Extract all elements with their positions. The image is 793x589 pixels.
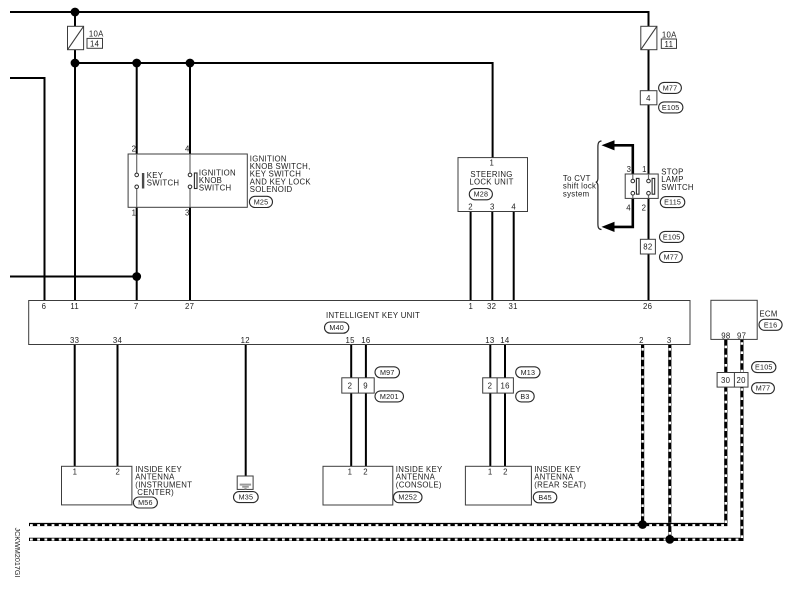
fuse 10A 14 bbox=[68, 26, 105, 49]
junction node bus2 ignition knob bbox=[186, 59, 195, 68]
svg-text:M97: M97 bbox=[380, 368, 395, 377]
wire SLU pin2 to IKU pin 1 bbox=[470, 212, 472, 301]
M25 pin labels bbox=[132, 145, 190, 218]
wire SLU pin4 to IKU pin 31 bbox=[513, 212, 515, 301]
wire bus2 bbox=[75, 62, 493, 64]
svg-text:2: 2 bbox=[115, 467, 120, 476]
svg-text:12: 12 bbox=[241, 336, 250, 345]
shielded wire IKU pin2 to bottom bus1 bbox=[641, 345, 644, 525]
svg-text:E105: E105 bbox=[755, 363, 773, 372]
stop lamp switch right contact bbox=[647, 174, 655, 198]
shielded bottom bus1 with ECM pin98 branch bbox=[29, 339, 726, 525]
wire top bus bbox=[10, 11, 649, 13]
junction node bus2 key switch bbox=[132, 59, 141, 68]
connector label M77 near 30|20 bbox=[752, 383, 775, 394]
stop lamp switch left contact bbox=[631, 174, 639, 198]
antenna M35 bbox=[237, 476, 253, 489]
svg-text:2: 2 bbox=[363, 467, 368, 476]
wire steering lock pin1 feed bbox=[492, 62, 494, 158]
svg-text:11: 11 bbox=[665, 40, 674, 49]
svg-text:34: 34 bbox=[113, 336, 123, 345]
svg-text:SWITCH: SWITCH bbox=[147, 179, 180, 188]
svg-text:M201: M201 bbox=[380, 392, 399, 401]
svg-text:33: 33 bbox=[70, 336, 79, 345]
svg-text:1: 1 bbox=[642, 165, 647, 174]
junction node bottom bus1 bbox=[638, 520, 647, 529]
svg-text:(REAR SEAT): (REAR SEAT) bbox=[534, 480, 586, 489]
IKU top pin labels bbox=[42, 302, 653, 311]
svg-text:M56: M56 bbox=[138, 498, 153, 507]
svg-text:1: 1 bbox=[73, 467, 78, 476]
svg-text:16: 16 bbox=[501, 382, 510, 391]
junction node on top bus at fuse 14 bbox=[71, 8, 80, 17]
wire to IKU pin 11 bbox=[74, 63, 76, 301]
svg-text:2: 2 bbox=[348, 382, 353, 391]
fuse 10A 11 bbox=[641, 26, 677, 49]
svg-text:10A: 10A bbox=[662, 30, 677, 39]
junction node left branch pin7 wire bbox=[132, 272, 141, 281]
svg-text:7: 7 bbox=[134, 302, 139, 311]
shielded bottom bus2 with ECM pin97 branch bbox=[29, 339, 742, 539]
svg-text:M40: M40 bbox=[329, 323, 344, 332]
svg-text:3: 3 bbox=[490, 202, 495, 211]
connector label M77 bbox=[659, 82, 682, 93]
connector label E105 near 30|20 bbox=[752, 362, 776, 373]
connector 30|20 bbox=[717, 373, 748, 388]
svg-text:20: 20 bbox=[736, 376, 746, 385]
svg-text:JCKWM2017GI: JCKWM2017GI bbox=[13, 528, 22, 578]
connector label M13 bbox=[516, 367, 540, 378]
connector label B45 bbox=[533, 492, 557, 503]
svg-text:4: 4 bbox=[626, 203, 631, 212]
svg-text:82: 82 bbox=[643, 243, 652, 252]
svg-text:4: 4 bbox=[646, 94, 651, 103]
wire to IKU pin 6 bbox=[10, 78, 45, 301]
svg-text:M77: M77 bbox=[664, 253, 679, 262]
svg-text:M28: M28 bbox=[474, 190, 489, 199]
CVT brace bbox=[596, 141, 602, 230]
wire IKU 14 to antenna B45 pin2 bbox=[504, 345, 506, 467]
svg-text:E16: E16 bbox=[764, 320, 777, 329]
svg-text:14: 14 bbox=[500, 336, 510, 345]
svg-text:B3: B3 bbox=[520, 392, 529, 401]
wire to ignition knob switch pin 4 bbox=[189, 63, 191, 154]
svg-text:B45: B45 bbox=[538, 493, 551, 502]
svg-text:2: 2 bbox=[468, 202, 473, 211]
connector label M201 bbox=[375, 391, 404, 402]
svg-text:32: 32 bbox=[487, 302, 496, 311]
connector label M35 bbox=[234, 492, 259, 503]
IKU bottom pin labels bbox=[70, 336, 671, 345]
wire fuse11 drop bbox=[648, 11, 650, 26]
svg-text:1: 1 bbox=[348, 467, 353, 476]
CVT note text bbox=[563, 174, 596, 198]
connector 2|9 bbox=[342, 378, 374, 393]
ECM box E16 bbox=[711, 300, 778, 340]
CVT branch arrow top bbox=[602, 140, 633, 174]
svg-text:27: 27 bbox=[185, 302, 194, 311]
svg-text:2: 2 bbox=[132, 145, 137, 154]
wire stop lamp pin2 to IKU pin 26 bbox=[648, 198, 650, 300]
ignition knob switch contacts bbox=[188, 154, 236, 207]
svg-text:98: 98 bbox=[721, 331, 730, 340]
svg-text:LOCK UNIT: LOCK UNIT bbox=[469, 178, 513, 187]
svg-text:E115: E115 bbox=[664, 198, 681, 207]
svg-text:6: 6 bbox=[42, 302, 47, 311]
svg-text:M77: M77 bbox=[756, 384, 771, 393]
wire SLU pin3 to IKU pin 32 bbox=[491, 212, 493, 301]
wire IKU 15 to antenna M252 pin1 bbox=[350, 345, 352, 467]
connector label M40 bbox=[325, 322, 349, 333]
wire IKU 33 to antenna M56 pin1 bbox=[74, 345, 76, 467]
connector label M25 bbox=[249, 196, 272, 207]
svg-text:26: 26 bbox=[643, 302, 652, 311]
connector label E115 bbox=[660, 197, 685, 208]
stop lamp name bbox=[661, 167, 694, 191]
svg-text:SWITCH: SWITCH bbox=[199, 184, 232, 193]
wire left branch to node on pin7 wire bbox=[10, 276, 137, 278]
svg-text:E105: E105 bbox=[663, 232, 681, 241]
svg-text:15: 15 bbox=[346, 336, 356, 345]
ignition knob switch / key switch box M25 bbox=[128, 154, 247, 207]
connector label E105 bbox=[659, 102, 683, 113]
intelligent key unit box M40 bbox=[29, 301, 690, 345]
svg-text:system: system bbox=[563, 189, 590, 198]
CVT branch arrow bottom bbox=[602, 198, 633, 232]
wire fuse14 drop bbox=[74, 12, 76, 26]
wire fuse11 to stop lamp switch pin 1 bbox=[648, 50, 650, 174]
wire to key switch pin 2 bbox=[136, 63, 138, 154]
svg-text:4: 4 bbox=[511, 202, 516, 211]
connector label M77 below 82 bbox=[660, 252, 683, 263]
wire fuse14 to bus2 bbox=[74, 50, 76, 63]
M25 description bbox=[250, 154, 312, 194]
svg-text:3: 3 bbox=[667, 336, 672, 345]
svg-text:INTELLIGENT KEY UNIT: INTELLIGENT KEY UNIT bbox=[326, 311, 420, 320]
connector label M28 bbox=[469, 189, 492, 200]
svg-text:1: 1 bbox=[468, 302, 473, 311]
shielded wire IKU pin3 to bottom bus2 bbox=[668, 345, 671, 540]
key switch contacts bbox=[135, 154, 179, 207]
inside key antenna console M252 bbox=[323, 465, 443, 505]
steering lock unit M28 bbox=[458, 158, 528, 212]
connector label E105 above 82 bbox=[660, 231, 684, 242]
svg-text:M13: M13 bbox=[521, 368, 536, 377]
svg-text:31: 31 bbox=[509, 302, 518, 311]
junction node bus2 at fuse 14 bbox=[71, 59, 80, 68]
inside key antenna instrument center M56 bbox=[62, 465, 193, 505]
connector label M56 bbox=[133, 497, 157, 508]
svg-text:SWITCH: SWITCH bbox=[661, 183, 694, 192]
connector 4 (M77/E105) bbox=[640, 91, 657, 105]
svg-text:E105: E105 bbox=[662, 103, 680, 112]
stop lamp pin labels bbox=[626, 165, 646, 212]
svg-text:CENTER): CENTER) bbox=[137, 488, 174, 497]
svg-text:ECM: ECM bbox=[759, 310, 777, 319]
svg-text:2: 2 bbox=[639, 336, 644, 345]
svg-text:M77: M77 bbox=[663, 83, 678, 92]
connector label M252 bbox=[394, 492, 423, 503]
svg-text:1: 1 bbox=[132, 209, 137, 218]
wire IKU 13 to antenna B45 pin1 bbox=[489, 345, 491, 467]
svg-text:10A: 10A bbox=[89, 30, 104, 39]
svg-text:14: 14 bbox=[90, 40, 100, 49]
wire key switch pin1 to IKU pin 7 bbox=[136, 207, 138, 300]
junction node bottom bus2 bbox=[665, 535, 674, 544]
svg-text:2: 2 bbox=[642, 203, 647, 212]
svg-text:9: 9 bbox=[363, 382, 368, 391]
wire IKU 12 to antenna M35 bbox=[245, 345, 247, 484]
svg-text:97: 97 bbox=[737, 331, 746, 340]
svg-text:30: 30 bbox=[721, 376, 731, 385]
svg-text:(CONSOLE): (CONSOLE) bbox=[396, 480, 442, 489]
svg-text:SOLENOID: SOLENOID bbox=[250, 185, 293, 194]
connector label M97 bbox=[375, 367, 400, 378]
connector label E16 bbox=[759, 319, 782, 330]
stop lamp switch E115 bbox=[625, 174, 658, 198]
connector label B3 bbox=[516, 391, 535, 402]
connector 82 bbox=[640, 239, 655, 254]
wire ignition knob pin3 to IKU pin 27 bbox=[189, 207, 191, 300]
svg-text:13: 13 bbox=[485, 336, 494, 345]
svg-text:2: 2 bbox=[503, 467, 508, 476]
wire IKU 16 to antenna M252 pin2 bbox=[365, 345, 367, 467]
svg-text:M35: M35 bbox=[239, 493, 254, 502]
svg-text:M252: M252 bbox=[398, 493, 417, 502]
svg-text:11: 11 bbox=[70, 302, 79, 311]
svg-text:16: 16 bbox=[361, 336, 370, 345]
svg-text:1: 1 bbox=[489, 159, 494, 168]
svg-text:3: 3 bbox=[627, 165, 632, 174]
svg-text:M25: M25 bbox=[254, 197, 269, 206]
svg-text:2: 2 bbox=[488, 382, 493, 391]
svg-text:1: 1 bbox=[488, 467, 493, 476]
inside key antenna rear seat B45 bbox=[465, 465, 586, 505]
svg-text:4: 4 bbox=[185, 145, 190, 154]
svg-text:3: 3 bbox=[185, 209, 190, 218]
connector 2|16 bbox=[483, 378, 514, 393]
wire IKU 34 to antenna M56 pin2 bbox=[117, 345, 119, 467]
